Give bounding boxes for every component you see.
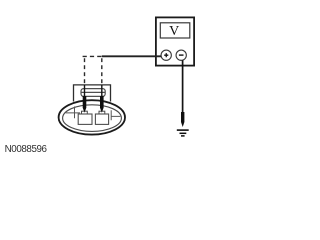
- svg-text:V: V: [169, 24, 179, 39]
